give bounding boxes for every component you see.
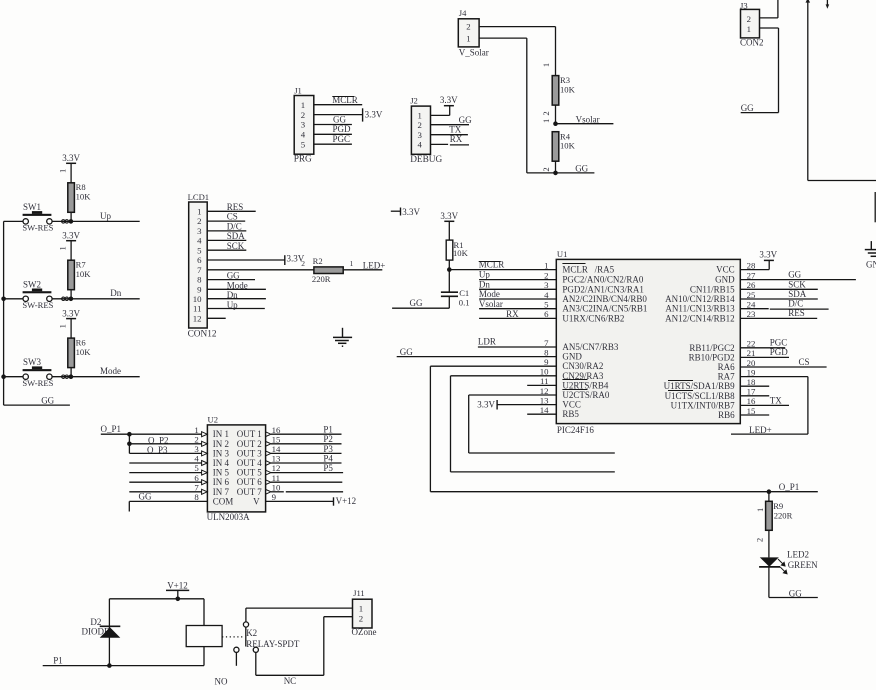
wire 3.3V to R8 [70,163,72,183]
power 3.3V at U1.28 [764,259,774,261]
wire U2.11 out [271,481,342,483]
wire SW1 to net Up [52,220,140,222]
wire J1.1 MCLR [314,104,362,106]
U1 U1RTS overbar [668,380,693,382]
wire LCD1 pin 5 [207,249,246,251]
svg-text:OUT 2: OUT 2 [237,439,262,449]
wire top-right arrowhead [806,0,811,3]
svg-text:15: 15 [272,434,281,444]
ic U2 body [207,425,265,512]
svg-text:2: 2 [301,110,305,120]
svg-text:2: 2 [197,216,201,226]
svg-text:GG: GG [410,298,423,308]
svg-text:P1: P1 [323,425,333,435]
svg-text:21: 21 [747,348,756,358]
resistor R6 [68,338,75,368]
wire U1.27 GG [740,279,856,281]
svg-text:AN11/CN13/RB13: AN11/CN13/RB13 [665,304,735,314]
svg-text:10K: 10K [453,248,469,258]
svg-text:PGC: PGC [333,134,351,144]
svg-text:24: 24 [747,300,756,310]
SW3 pin marks [62,375,65,378]
wire U1.25 SDA [740,298,818,300]
wire MCLR node to U1.1 [449,269,556,271]
connector J4 [458,19,479,47]
svg-text:10: 10 [193,294,202,304]
svg-text:J4: J4 [459,8,467,18]
svg-text:3: 3 [544,280,549,290]
wire R6 to node [70,368,72,377]
wire J1.2 to 3.3V [314,114,363,116]
power V+12 at U2.9 [333,497,335,505]
svg-text:CS: CS [227,212,238,222]
svg-text:GG: GG [333,114,346,124]
wire J2.1 to 3.3V [431,114,450,116]
wire U1.13 VCC [497,404,556,406]
svg-text:3: 3 [197,226,202,236]
svg-text:K2: K2 [246,628,257,638]
svg-text:U1: U1 [557,249,568,259]
wire U1.24 D/C [740,308,768,310]
svg-text:J11: J11 [353,588,365,598]
wire U2.3 [129,452,201,454]
svg-text:CON12: CON12 [188,330,217,340]
power 3.3V at R1 [444,220,454,222]
svg-text:4: 4 [544,290,549,300]
wire U2.15 out [271,443,342,445]
wire GG to U1.8 [397,356,557,358]
svg-text:Mode: Mode [227,280,248,290]
svg-text:5: 5 [194,463,199,473]
svg-text:5: 5 [197,245,202,255]
svg-text:12: 12 [272,463,281,473]
svg-text:1: 1 [541,63,551,67]
svg-text:1: 1 [194,425,198,435]
wire bus to SW3 [4,376,23,378]
relay K2 NC contact [253,647,258,652]
svg-text:GND: GND [866,260,876,270]
wire LCD1 pin 12 [207,317,226,319]
junction R8/SW1 [69,219,74,224]
svg-text:16: 16 [272,425,281,435]
wire U1.18 stub [740,385,769,387]
wire K2 common to J11.1 [245,608,247,622]
U2 input mark pin 2 [202,441,208,446]
svg-text:OZone: OZone [352,627,377,637]
connector J3 [741,9,760,38]
wire LCD1 pin 10 [207,298,266,300]
wire NO stub [235,653,237,666]
svg-text:O_P1: O_P1 [779,482,800,492]
wire U2.5 stub [129,472,202,474]
svg-text:5: 5 [544,300,549,310]
svg-text:D2: D2 [90,617,101,627]
svg-text:3.3V: 3.3V [477,400,495,410]
svg-text:P1: P1 [53,655,63,665]
svg-text:SW-RES: SW-RES [22,300,53,310]
svg-text:IN 5: IN 5 [213,468,230,478]
relay K2 common contact [243,622,248,627]
svg-text:VCC: VCC [716,265,735,275]
wire right-edge partial component [874,192,876,222]
svg-text:7: 7 [197,265,202,275]
wire J2.4 RX [431,143,449,145]
svg-text:OUT 3: OUT 3 [237,448,263,458]
U2 output mark pin 13 [266,461,271,466]
junction MCLR node [447,267,452,272]
wire U1.11 stub [527,384,556,386]
junction R6/SW3 [69,374,74,379]
svg-text:RX: RX [450,134,463,144]
connector J1 [294,96,314,155]
wire R1 to MCLR node [448,260,450,292]
wire LCD1 pin 3 [207,230,246,232]
wire SW2 to net Dn [52,298,140,300]
svg-text:SCK: SCK [788,279,806,289]
svg-text:J1: J1 [294,85,302,95]
svg-text:CN11/RB15: CN11/RB15 [690,284,735,294]
U2 input mark pin 3 [202,451,208,456]
svg-text:10K: 10K [560,85,576,95]
svg-text:1: 1 [544,260,548,270]
power 3.3V tap (floating) [391,210,401,212]
wire U1.21 PGD [740,356,789,358]
svg-text:10K: 10K [76,269,92,279]
svg-text:GG: GG [227,271,240,281]
svg-text:1: 1 [197,206,201,216]
junction O_P1/R9 [767,489,772,494]
junction O_P1 a [127,432,132,437]
junction R4/GG [553,171,558,176]
svg-text:11: 11 [193,304,201,314]
svg-text:7: 7 [194,482,199,492]
wire U2.4 stub [129,462,202,464]
wire U2.8 GG [129,500,207,502]
svg-text:SW2: SW2 [23,279,41,289]
SW2 pin marks [62,297,65,300]
switch SW2 body [23,291,52,293]
junction R7/SW2 [69,297,74,302]
wire U1.14 stub [527,413,556,415]
svg-text:8: 8 [194,492,199,502]
svg-text:220R: 220R [312,274,331,284]
U2 output mark pin 10 [266,490,271,495]
svg-text:RA7: RA7 [718,372,736,382]
switch SW3 body [23,369,52,371]
svg-text:OUT 5: OUT 5 [237,468,263,478]
wire Mode to U1.4 [479,298,556,300]
svg-text:2: 2 [466,22,470,32]
svg-text:4: 4 [301,130,306,140]
svg-text:GND: GND [562,352,582,362]
svg-text:13: 13 [272,454,281,464]
svg-text:NC: NC [284,676,297,686]
wire U2.14 out [271,452,342,454]
svg-text:2: 2 [544,270,548,280]
wire R4 to GG [555,161,557,173]
wire J2.2 GG [431,124,470,126]
svg-text:1: 1 [755,508,765,512]
U2 output mark pin 14 [266,451,271,456]
svg-text:SW-RES: SW-RES [22,378,53,388]
svg-text:AN12/CN14/RB12: AN12/CN14/RB12 [665,313,735,323]
svg-text:RES: RES [788,308,805,318]
wire U2.16 out [271,433,342,435]
switch SW1 terminals [23,219,28,224]
svg-text:Dn: Dn [110,288,121,298]
svg-text:6: 6 [544,309,549,319]
svg-text:AN3/C2INA/CN5/RB1: AN3/C2INA/CN5/RB1 [562,304,647,314]
wire U1.22 PGC [740,347,785,349]
svg-text:OUT 7: OUT 7 [237,487,263,497]
svg-text:V: V [253,496,260,506]
wire O_P1 branch down [128,434,130,453]
svg-text:Vsolar: Vsolar [576,114,600,124]
wire J4.2 to R3 [479,26,555,28]
svg-text:IN 6: IN 6 [213,477,230,487]
svg-text:SCK: SCK [227,241,245,251]
ground GND (right edge) [870,241,872,250]
wire top-edge arrow stub [826,0,828,5]
wire LCD1 pin 8 [207,279,255,281]
svg-text:22: 22 [747,339,756,349]
svg-text:220R: 220R [774,510,793,520]
svg-text:13: 13 [540,395,549,405]
svg-text:SW3: SW3 [23,357,42,367]
svg-text:TX: TX [449,125,461,135]
svg-text:1: 1 [747,24,751,34]
svg-text:VCC: VCC [562,400,581,410]
wire Dn to U1.3 [479,288,556,290]
wire U1.17 stub [740,395,769,397]
svg-text:Dn: Dn [227,290,238,300]
junction D2/P1 [107,663,112,668]
connector LCD1 [189,202,208,328]
svg-text:20: 20 [747,358,756,368]
resistor R9 [766,501,773,530]
svg-text:Dn: Dn [479,279,490,289]
svg-text:2: 2 [359,613,363,623]
svg-text:Up: Up [479,270,490,280]
svg-text:10K: 10K [560,141,576,151]
wire 3.3V to R6 [70,319,72,339]
svg-text:1: 1 [301,100,305,110]
wire LCD1 pin 9 [207,288,266,290]
svg-text:Mode: Mode [100,366,121,376]
wire top-right vertical [807,0,809,181]
wire LCD1 pin 6 [207,259,285,261]
svg-text:1: 1 [466,33,470,43]
svg-text:14: 14 [540,405,549,415]
svg-text:R2: R2 [313,256,323,266]
svg-text:D/C: D/C [788,299,803,309]
U2 input mark pin 5 [202,470,208,475]
svg-text:3.3V: 3.3V [440,211,458,221]
svg-text:10K: 10K [76,192,92,202]
svg-text:2: 2 [301,259,305,268]
svg-text:RB10/PGD2: RB10/PGD2 [689,352,735,362]
wire NC to J11.2 [255,653,257,676]
switch SW3 terminals [23,374,28,379]
svg-text:SDA: SDA [227,231,246,241]
junction O_P1 b [127,442,132,447]
U2 input mark pin 7 [202,489,208,494]
svg-text:6: 6 [197,255,202,265]
relay K2 link (dotted) [222,636,244,638]
U2 output mark pin 12 [266,470,271,475]
svg-text:U1RX/CN6/RB2: U1RX/CN6/RB2 [562,313,624,323]
wire R7 to node [70,290,72,299]
svg-text:IN 7: IN 7 [213,487,230,497]
svg-text:1: 1 [57,246,67,250]
svg-text:18: 18 [747,377,756,387]
svg-text:P5: P5 [323,463,333,473]
svg-text:Vsolar: Vsolar [479,299,503,309]
resistor R7 [68,260,75,290]
wire U1.28 to 3.3V [740,269,769,271]
svg-text:8: 8 [544,347,549,357]
svg-text:D/C: D/C [227,221,242,231]
wire O_P1 to R9 [768,492,770,502]
svg-text:1: 1 [57,169,67,173]
wire U1.26 SCK [740,288,818,290]
svg-text:COM: COM [213,496,234,506]
svg-text:RB6: RB6 [718,410,735,420]
wire U1.15 stub [740,414,769,416]
wire net O_P1 horizontal [430,491,817,493]
relay K2 NO contact [234,647,239,652]
wire C1 to GG [448,296,450,308]
svg-text:PGD: PGD [770,347,789,357]
svg-text:J2: J2 [410,95,418,105]
svg-text:8: 8 [197,275,202,285]
U2 input mark pin 4 [202,461,208,466]
power 3.3V at J1.2 [362,108,364,121]
svg-text:IN 3: IN 3 [213,448,230,458]
svg-text:PGD: PGD [333,124,352,134]
ic U1 body [556,259,740,423]
wire top-right horizontal [808,180,876,182]
svg-text:2: 2 [194,434,198,444]
wire U1.9 to O_P1 [430,365,556,367]
led LED2 [760,557,779,566]
svg-text:3.3V: 3.3V [440,95,458,105]
svg-text:RB11/PGC2: RB11/PGC2 [689,343,734,353]
svg-text:23: 23 [747,309,756,319]
LED2 emission arrows [778,559,787,574]
wire R3 to Vsolar node [555,105,557,124]
svg-text:15: 15 [747,406,756,416]
wire bus to SW1 [4,220,23,222]
wire left ground bus [3,221,5,405]
svg-text:RX: RX [506,309,519,319]
svg-text:V+12: V+12 [336,496,357,506]
svg-text:V+12: V+12 [167,581,188,591]
junction V+12 rail [176,597,181,602]
svg-text:P2: P2 [323,434,333,444]
wire U2.2 [129,443,201,445]
wire U2.12 out [271,472,343,474]
svg-text:12: 12 [193,313,202,323]
U2 output mark pin 11 [266,480,271,485]
svg-text:OUT 4: OUT 4 [237,458,263,468]
wire U2.13 out [271,462,342,464]
svg-text:10: 10 [272,482,281,492]
wire V+12 rail [109,598,204,600]
U1 MCLR overbar [562,263,585,265]
wire U2.9 V+12 [266,500,334,502]
svg-text:5: 5 [301,139,306,149]
svg-text:2: 2 [747,14,751,24]
svg-text:LCD1: LCD1 [188,192,209,202]
svg-text:OUT 6: OUT 6 [237,477,263,487]
wire J2.3 TX [431,134,468,136]
switch SW2 terminals [23,296,28,301]
svg-text:2: 2 [541,167,551,171]
U1 U2RTS overbar [562,379,587,381]
svg-text:U1CTS/SCL1/RB8: U1CTS/SCL1/RB8 [665,391,736,401]
wire LCD1 pin 7 [207,269,314,271]
wire U2.6 stub [129,481,202,483]
svg-text:CS: CS [799,357,810,367]
svg-text:CON2: CON2 [740,38,764,48]
wire SW3 to net Mode [52,376,140,378]
svg-text:NO: NO [215,676,228,686]
wire J3.1 to GG [760,27,779,29]
svg-text:Up: Up [100,211,111,221]
U2 input mark pin 6 [202,480,208,485]
svg-text:OUT 1: OUT 1 [237,429,262,439]
svg-text:16: 16 [747,396,756,406]
svg-text:TX: TX [770,395,782,405]
wire Vsolar to U1.5 [479,308,556,310]
switch SW1 body [23,214,52,216]
power 3.3V at J2.1 [444,105,454,107]
svg-text:O_P1: O_P1 [101,424,122,434]
svg-text:PGC2/AN0/CN2/RA0: PGC2/AN0/CN2/RA0 [562,275,644,285]
connector J2 [411,106,430,154]
svg-text:ULN2003A: ULN2003A [207,512,250,522]
svg-text:GG: GG [459,115,472,125]
svg-text:6: 6 [194,473,199,483]
svg-text:AN5/CN7/RB3: AN5/CN7/RB3 [562,342,619,352]
svg-text:9: 9 [544,357,549,367]
svg-text:IN 4: IN 4 [213,458,230,468]
svg-text:SDA: SDA [788,289,807,299]
svg-text:U2RTS/RB4: U2RTS/RB4 [562,380,608,390]
wire U1.23 RES [740,317,817,319]
wire GG (J4/R4) [527,172,595,174]
wire U1.12 down [469,394,557,396]
svg-text:3.3V: 3.3V [62,153,80,163]
svg-text:MCLR /RA5: MCLR /RA5 [562,265,614,275]
U2 output mark pin 16 [266,432,271,437]
svg-text:0.1: 0.1 [459,297,470,307]
svg-text:U1RTS/SDA1/RB9: U1RTS/SDA1/RB9 [664,381,735,391]
power 3.3V at U1.13 [496,400,498,410]
svg-text:4: 4 [417,140,422,150]
wire J1.3 GG [314,124,352,126]
wire U2.10 out [271,491,284,493]
svg-text:3.3V: 3.3V [365,110,383,120]
svg-text:3: 3 [194,444,199,454]
svg-text:RB5: RB5 [562,409,579,419]
svg-text:10K: 10K [76,347,92,357]
power 3.3V for R8 [66,162,76,164]
power 3.3V at LCD1.6 [284,255,286,265]
wire R8 to node [70,212,72,221]
svg-text:12: 12 [540,386,549,396]
